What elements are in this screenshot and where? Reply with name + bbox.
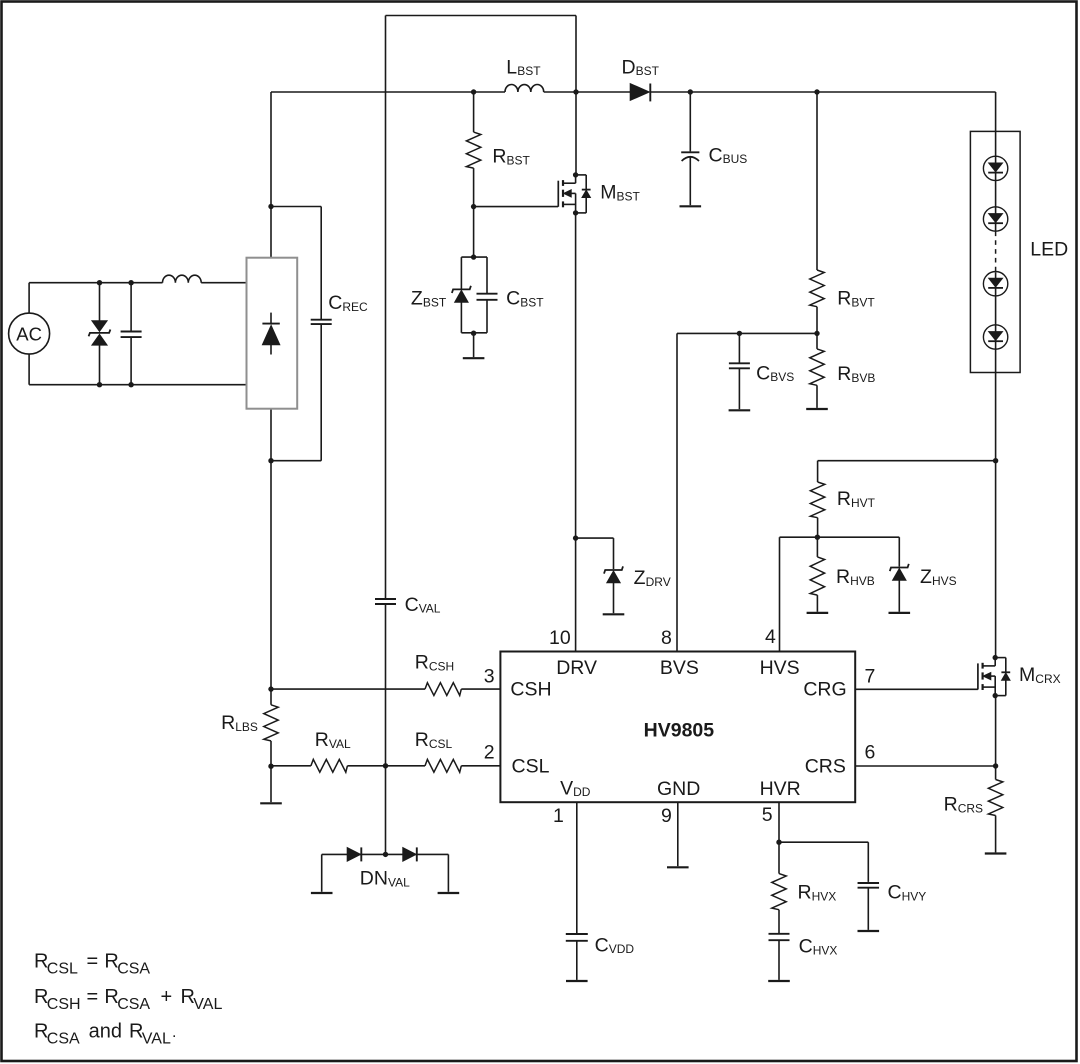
label RBVT bbox=[837, 288, 875, 310]
svg-text:C: C bbox=[756, 362, 770, 384]
label CVDD bbox=[595, 934, 635, 956]
capacitor CHVX bbox=[769, 934, 790, 980]
svg-text:Z: Z bbox=[411, 288, 423, 310]
resistor RBVB bbox=[810, 333, 824, 408]
svg-text:=: = bbox=[87, 951, 99, 973]
label MBST bbox=[600, 182, 640, 204]
zener ZBST bbox=[452, 286, 471, 302]
ground CBUS bbox=[680, 205, 702, 207]
wire GND pin9 bbox=[677, 802, 679, 866]
capacitor EMI filter bbox=[121, 280, 142, 387]
label DNVAL bbox=[360, 868, 410, 890]
pin name CRS bbox=[805, 756, 846, 778]
svg-text:HVS: HVS bbox=[932, 574, 957, 588]
svg-text:M: M bbox=[1019, 664, 1035, 686]
pin number 8 bbox=[661, 627, 672, 649]
LED diode 2 bbox=[983, 207, 1007, 231]
ground RCRS bbox=[985, 852, 1007, 854]
wire MBST drain bbox=[575, 92, 577, 175]
node CBUS tap bbox=[688, 89, 693, 94]
svg-text:R: R bbox=[315, 729, 329, 751]
resistor RVAL bbox=[311, 759, 348, 772]
svg-text:CSH: CSH bbox=[47, 996, 81, 1013]
svg-text:R: R bbox=[836, 566, 850, 588]
svg-text:VAL: VAL bbox=[388, 875, 410, 889]
svg-text:VAL: VAL bbox=[193, 996, 222, 1013]
svg-text:BVS: BVS bbox=[660, 657, 699, 679]
svg-text:4: 4 bbox=[765, 626, 776, 648]
svg-text:R: R bbox=[221, 712, 235, 734]
svg-text:LBS: LBS bbox=[235, 720, 258, 734]
wire MBST gate bbox=[474, 206, 558, 208]
diode DNVAL right bbox=[403, 847, 417, 861]
svg-text:8: 8 bbox=[661, 627, 672, 649]
label HV9805 bbox=[644, 720, 715, 742]
formula line 3 bbox=[34, 1021, 176, 1048]
svg-text:AC: AC bbox=[16, 323, 42, 344]
svg-text:BUS: BUS bbox=[723, 152, 748, 166]
label CHVY bbox=[888, 882, 927, 904]
pin number 6 bbox=[865, 742, 876, 764]
label RHVX bbox=[798, 882, 837, 904]
svg-text:BST: BST bbox=[520, 295, 544, 309]
svg-text:HVX: HVX bbox=[813, 943, 838, 957]
ground RHVB bbox=[807, 612, 829, 614]
capacitor CBUS bbox=[681, 92, 699, 205]
svg-text:9: 9 bbox=[661, 805, 672, 827]
svg-text:BST: BST bbox=[617, 190, 641, 204]
transistor MBST bbox=[558, 172, 590, 215]
node MBST drain tap bbox=[573, 89, 578, 94]
label RBST bbox=[492, 146, 530, 168]
resistor RBVT bbox=[810, 92, 824, 336]
pin number 4 bbox=[765, 626, 776, 648]
label CBVS bbox=[756, 362, 794, 384]
pin number 10 bbox=[549, 627, 571, 649]
ground CHVX bbox=[768, 980, 790, 982]
inductor LBST bbox=[505, 84, 544, 92]
svg-text:Z: Z bbox=[634, 567, 646, 589]
ground CHVY bbox=[858, 930, 880, 932]
label RCSL bbox=[415, 729, 453, 751]
svg-text:+: + bbox=[161, 986, 173, 1008]
wire CSL line bbox=[271, 763, 500, 768]
wire left rail bbox=[268, 92, 273, 705]
label LBST bbox=[506, 56, 541, 78]
ground CBVS bbox=[729, 409, 751, 411]
transistor MCRX bbox=[978, 655, 1010, 698]
svg-text:DRV: DRV bbox=[646, 575, 671, 589]
svg-text:BST: BST bbox=[636, 64, 660, 78]
label ZHVS bbox=[920, 566, 957, 588]
svg-text:VAL: VAL bbox=[419, 602, 441, 616]
svg-text:5: 5 bbox=[762, 804, 773, 826]
svg-text:C: C bbox=[405, 594, 419, 616]
svg-text:R: R bbox=[415, 729, 429, 751]
svg-text:CRG: CRG bbox=[803, 679, 846, 701]
wire CVAL to DNVAL bbox=[383, 604, 388, 857]
svg-text:BST: BST bbox=[517, 64, 541, 78]
pin number 9 bbox=[661, 805, 672, 827]
svg-text:C: C bbox=[799, 936, 813, 958]
wire CRS line bbox=[855, 697, 998, 769]
svg-text:10: 10 bbox=[549, 627, 571, 649]
wire DNVAL rail bbox=[322, 853, 449, 855]
svg-text:DN: DN bbox=[360, 868, 388, 890]
svg-text:Z: Z bbox=[920, 566, 932, 588]
svg-text:REC: REC bbox=[342, 300, 368, 314]
svg-text:VAL: VAL bbox=[329, 737, 351, 751]
label RVAL bbox=[315, 729, 351, 751]
label RCSH bbox=[415, 652, 454, 674]
capacitor CBST bbox=[477, 294, 498, 300]
capacitor CREC bbox=[311, 320, 332, 324]
label CBUS bbox=[709, 144, 748, 166]
label RHVT bbox=[837, 488, 876, 510]
wire LED bottom to MCRX bbox=[993, 373, 998, 658]
label CBST bbox=[506, 288, 544, 310]
LED diode 3 bbox=[983, 272, 1007, 296]
svg-text:C: C bbox=[709, 144, 723, 166]
svg-text:BST: BST bbox=[507, 153, 531, 167]
svg-text:VAL: VAL bbox=[142, 1031, 171, 1048]
svg-text:=: = bbox=[87, 986, 99, 1008]
bridge rectifier box bbox=[247, 258, 298, 409]
wire RHVT top bbox=[818, 460, 996, 462]
svg-text:HVS: HVS bbox=[760, 657, 800, 679]
svg-text:CRS: CRS bbox=[805, 756, 846, 778]
svg-text:HVT: HVT bbox=[851, 496, 876, 510]
svg-text:R: R bbox=[837, 488, 851, 510]
svg-text:CRS: CRS bbox=[958, 802, 983, 816]
svg-text:R: R bbox=[944, 794, 958, 816]
ground ZBST bbox=[463, 333, 485, 358]
label DBST bbox=[622, 56, 660, 78]
resistor RLBS bbox=[264, 705, 278, 769]
ground ZHVS bbox=[889, 612, 911, 614]
svg-text:D: D bbox=[622, 56, 636, 78]
svg-text:GND: GND bbox=[657, 778, 700, 800]
pin name CSL bbox=[512, 756, 550, 778]
svg-text:CSH: CSH bbox=[510, 679, 551, 701]
pin number 3 bbox=[484, 666, 495, 688]
label ZBST bbox=[411, 288, 447, 310]
wire CREC branch bbox=[271, 207, 321, 461]
wire LED string bbox=[995, 131, 997, 372]
svg-text:R: R bbox=[415, 652, 429, 674]
wire DRV net bbox=[573, 213, 578, 652]
diode DBST bbox=[630, 84, 650, 102]
label LED bbox=[1030, 238, 1068, 260]
label CVAL bbox=[405, 594, 441, 616]
label CREC bbox=[328, 292, 368, 314]
capacitor CHVY bbox=[858, 883, 880, 930]
svg-text:C: C bbox=[328, 292, 342, 314]
wire CHVY branch bbox=[779, 842, 868, 882]
label CHVX bbox=[799, 936, 838, 958]
formula line 1 bbox=[34, 951, 150, 978]
svg-text:DRV: DRV bbox=[556, 657, 597, 679]
svg-text:R: R bbox=[798, 882, 812, 904]
svg-text:CSH: CSH bbox=[429, 659, 454, 673]
node RBST tap bbox=[471, 89, 476, 94]
resistor RHVT bbox=[810, 461, 824, 540]
svg-text:HV9805: HV9805 bbox=[644, 720, 715, 742]
ground RBVB bbox=[806, 408, 828, 410]
pin name BVS bbox=[660, 657, 699, 679]
capacitor CVDD bbox=[566, 934, 588, 980]
resistor RHVB bbox=[810, 537, 824, 612]
label RCRS bbox=[944, 794, 983, 816]
svg-text:CSL: CSL bbox=[429, 737, 453, 751]
svg-text:BVS: BVS bbox=[770, 370, 794, 384]
wire CRG line bbox=[855, 688, 978, 690]
label MCRX bbox=[1019, 664, 1061, 686]
wire BVS net bbox=[677, 331, 817, 652]
svg-text:BVT: BVT bbox=[851, 296, 875, 310]
svg-text:DD: DD bbox=[573, 785, 591, 799]
ground DNVAL left bbox=[311, 854, 333, 893]
IC HV9805 box bbox=[500, 652, 855, 803]
svg-text:6: 6 bbox=[865, 742, 876, 764]
AC source bbox=[9, 313, 50, 354]
node RBVT tap bbox=[814, 89, 819, 94]
LED diode 4 bbox=[983, 325, 1007, 349]
svg-text:HVY: HVY bbox=[902, 890, 927, 904]
pin number 1 bbox=[553, 805, 564, 827]
svg-text:C: C bbox=[888, 882, 902, 904]
LED diode 1 bbox=[983, 156, 1007, 180]
svg-text:HVR: HVR bbox=[760, 778, 801, 800]
capacitor CBVS bbox=[729, 333, 750, 409]
svg-text:1: 1 bbox=[553, 805, 564, 827]
TVS transient suppressor bbox=[89, 280, 111, 387]
formula line 2 bbox=[34, 986, 222, 1013]
ground RLBS bbox=[260, 766, 282, 803]
wire ZDRV tap bbox=[576, 538, 614, 569]
capacitor CVAL bbox=[375, 599, 396, 604]
wire AC loop bottom bbox=[29, 354, 246, 385]
svg-text:HVX: HVX bbox=[812, 890, 837, 904]
svg-text:3: 3 bbox=[484, 666, 495, 688]
resistor RBST bbox=[466, 92, 480, 209]
pin name CRG bbox=[803, 679, 846, 701]
svg-text:C: C bbox=[506, 288, 520, 310]
wire CSH line bbox=[268, 686, 500, 691]
svg-text:CSL: CSL bbox=[47, 961, 78, 978]
resistor RCSH bbox=[425, 683, 461, 696]
svg-text:BVB: BVB bbox=[851, 371, 875, 385]
pin name HVS bbox=[760, 657, 800, 679]
svg-text:V: V bbox=[560, 777, 573, 799]
wire ZBST branch bbox=[461, 207, 487, 336]
svg-text:M: M bbox=[600, 182, 616, 204]
wire AC loop top bbox=[29, 283, 246, 314]
ground GND bbox=[667, 866, 689, 868]
svg-text:HVB: HVB bbox=[850, 574, 875, 588]
zener ZHVS bbox=[890, 537, 909, 612]
svg-text:2: 2 bbox=[484, 742, 495, 764]
svg-text:L: L bbox=[506, 56, 517, 78]
bridge diode bbox=[262, 313, 279, 355]
svg-text:R: R bbox=[837, 288, 851, 310]
ground DNVAL right bbox=[438, 854, 460, 893]
svg-text:CSA: CSA bbox=[117, 961, 150, 978]
svg-text:CSA: CSA bbox=[47, 1031, 80, 1048]
label RLBS bbox=[221, 712, 258, 734]
svg-text:7: 7 bbox=[865, 666, 876, 688]
label ZDRV bbox=[634, 567, 671, 589]
pin name DRV bbox=[556, 657, 597, 679]
svg-text:VDD: VDD bbox=[609, 942, 635, 956]
ground ZDRV bbox=[603, 613, 625, 615]
svg-text:C: C bbox=[595, 934, 609, 956]
svg-text:.: . bbox=[172, 1024, 176, 1041]
LED box bbox=[970, 131, 1020, 372]
svg-text:R: R bbox=[837, 363, 851, 385]
zener ZDRV bbox=[604, 566, 623, 613]
pin name VDD bbox=[560, 777, 591, 799]
svg-text:CSA: CSA bbox=[117, 996, 150, 1013]
svg-text:R: R bbox=[492, 146, 506, 168]
pin number 5 bbox=[762, 804, 773, 826]
inductor EMI filter bbox=[163, 275, 202, 283]
resistor RHVX bbox=[772, 874, 786, 934]
svg-text:and: and bbox=[89, 1021, 122, 1043]
wire top loop bbox=[386, 16, 577, 600]
ground CVDD bbox=[566, 980, 588, 982]
wire main bus bbox=[271, 92, 996, 131]
svg-text:CRX: CRX bbox=[1035, 672, 1060, 686]
wire HVR pin5 bbox=[776, 802, 781, 873]
pin number 2 bbox=[484, 742, 495, 764]
wire HVS net bbox=[780, 537, 900, 651]
svg-text:CSL: CSL bbox=[512, 756, 550, 778]
pin name GND bbox=[657, 778, 700, 800]
pin name CSH bbox=[510, 679, 551, 701]
diode DNVAL left bbox=[347, 847, 361, 861]
label RBVB bbox=[837, 363, 875, 385]
svg-text:BST: BST bbox=[423, 295, 447, 309]
svg-text:LED: LED bbox=[1030, 238, 1068, 260]
resistor RCSL bbox=[425, 759, 461, 772]
label RHVB bbox=[836, 566, 875, 588]
pin number 7 bbox=[865, 666, 876, 688]
wire VDD pin1 bbox=[576, 802, 578, 934]
resistor RCRS bbox=[988, 766, 1002, 852]
pin name HVR bbox=[760, 778, 801, 800]
